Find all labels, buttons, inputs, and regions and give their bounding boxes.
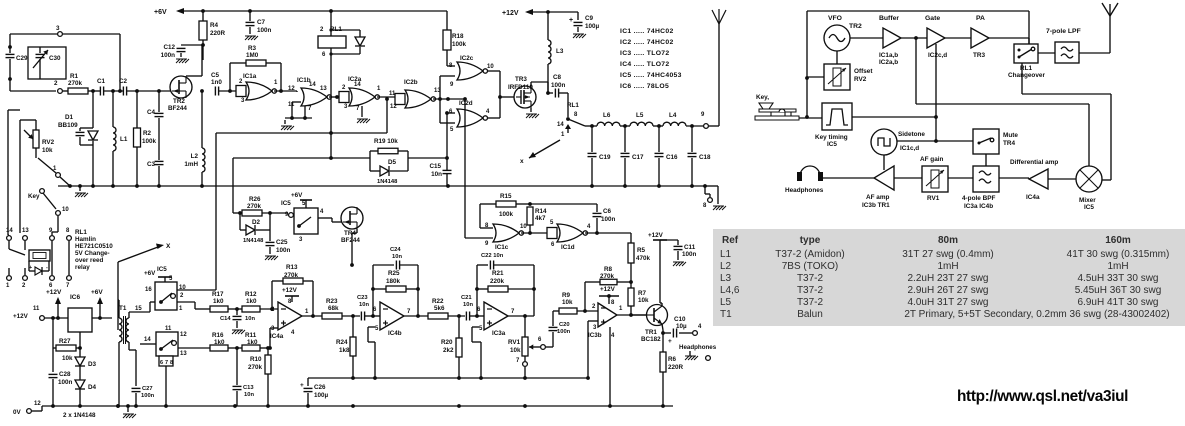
wire key to timing: [799, 117, 822, 119]
svg-text:R4: R4: [210, 22, 219, 29]
svg-text:C16: C16: [666, 154, 678, 161]
svg-text:Changeover: Changeover: [1008, 72, 1045, 79]
wire: [985, 154, 987, 166]
wire IC4a out: [302, 315, 322, 317]
relay RL1 coil: [330, 11, 332, 36]
wire: [177, 289, 216, 291]
svg-text:L3: L3: [556, 48, 564, 55]
svg-text:TR3: TR3: [515, 76, 527, 83]
wire IC4b out: [404, 315, 428, 317]
svg-text:Mixer: Mixer: [1079, 197, 1096, 204]
NOR gate IC2d: [457, 109, 483, 127]
svg-text:TR4: TR4: [1003, 140, 1016, 147]
svg-text:R6: R6: [668, 356, 677, 363]
Sidetone block: [871, 129, 897, 155]
svg-text:1mH: 1mH: [1107, 261, 1128, 272]
wire IC3b pin3: [588, 320, 598, 322]
Mute TR4 block: [973, 129, 999, 154]
svg-text:14: 14: [309, 82, 316, 88]
svg-text:C27: C27: [142, 386, 153, 392]
svg-text:C29: C29: [16, 55, 28, 62]
resistor R18: [446, 11, 448, 30]
wire: [1048, 178, 1076, 180]
resistor R21 feedback: [477, 288, 488, 290]
svg-text:14: 14: [144, 337, 151, 343]
svg-text:100n: 100n: [276, 247, 291, 254]
svg-text:1n0: 1n0: [211, 79, 222, 86]
svg-text:TR2: TR2: [173, 98, 185, 105]
wire IC6 gnd: [79, 332, 81, 406]
wire: [447, 65, 455, 67]
svg-text:BF244: BF244: [341, 237, 360, 244]
svg-text:IC1 ..... 74HC02: IC1 ..... 74HC02: [620, 28, 674, 35]
wire IC3a +in: [472, 326, 479, 328]
svg-text:IC3b TR1: IC3b TR1: [862, 202, 890, 209]
wire IC1c inputs: [465, 237, 493, 239]
svg-text:R1: R1: [70, 73, 79, 80]
svg-text:IRFD110: IRFD110: [508, 84, 533, 91]
wire: [274, 90, 297, 92]
svg-text:+: +: [300, 382, 304, 389]
wire: [377, 96, 395, 98]
antenna block: [1102, 3, 1110, 16]
svg-text:IC3b: IC3b: [588, 332, 602, 339]
svg-text:R18: R18: [452, 33, 464, 40]
svg-text:C2: C2: [119, 78, 128, 85]
svg-text:1N4148: 1N4148: [243, 238, 264, 244]
capacitor C12: [181, 44, 203, 46]
svg-text:13: 13: [180, 351, 187, 357]
inductor L6: [597, 122, 620, 126]
svg-text:10k: 10k: [638, 297, 649, 304]
svg-text:C3: C3: [147, 161, 156, 168]
svg-text:100n: 100n: [141, 393, 155, 399]
svg-text:C19: C19: [599, 154, 611, 161]
op-amp IC3a: [484, 302, 508, 330]
svg-text:Sidetone: Sidetone: [898, 131, 925, 138]
svg-text:41T 30 swg (0.315mm): 41T 30 swg (0.315mm): [1067, 249, 1170, 260]
svg-text:+12V: +12V: [648, 232, 664, 239]
wire IC1d out: [585, 232, 631, 234]
capacitor C13: [233, 385, 242, 387]
svg-text:type: type: [800, 235, 821, 246]
svg-text:100k: 100k: [142, 138, 157, 145]
svg-text:3: 3: [56, 25, 60, 32]
wire: [901, 37, 927, 39]
wire node3: [10, 33, 57, 35]
capacitor C22 feedback: [476, 265, 478, 316]
capacitor C18: [691, 126, 693, 152]
svg-text:relay: relay: [75, 264, 90, 271]
NOR gate IC2a: [339, 92, 349, 103]
svg-text:Offset: Offset: [854, 68, 873, 75]
wire IC3b out: [617, 314, 646, 316]
wire rx feed: [1021, 63, 1023, 94]
svg-text:IC5: IC5: [827, 141, 837, 148]
svg-text:4.5uH 33T 30 swg: 4.5uH 33T 30 swg: [1078, 273, 1159, 284]
svg-text:14: 14: [557, 122, 564, 128]
svg-text:IC4 ..... TLO72: IC4 ..... TLO72: [620, 61, 669, 68]
svg-text:2.9uH 26T 27 swg: 2.9uH 26T 27 swg: [908, 285, 989, 296]
wire IC3b pin4: [609, 327, 611, 406]
svg-text:IC2c,d: IC2c,d: [928, 52, 947, 59]
svg-text:2: 2: [54, 80, 58, 87]
inductor L4: [663, 122, 686, 126]
svg-text:10n: 10n: [431, 171, 442, 178]
svg-text:11: 11: [389, 91, 396, 97]
resistor R2: [136, 91, 138, 128]
diode D4: [75, 380, 85, 389]
wire: [1038, 52, 1055, 54]
svg-text:IC6 ..... 78LO5: IC6 ..... 78LO5: [620, 83, 669, 90]
svg-text:1mH: 1mH: [184, 161, 198, 168]
svg-text:IC2d: IC2d: [459, 100, 473, 107]
capacitor C27: [132, 387, 141, 389]
wire IC2c out: [487, 70, 500, 72]
svg-text:+: +: [668, 338, 672, 345]
svg-text:100n: 100n: [551, 82, 566, 89]
node 4 headphones: [693, 331, 698, 336]
diode relay: [28, 261, 30, 271]
svg-text:Headphones: Headphones: [785, 187, 824, 194]
ground: [284, 120, 286, 124]
capacitor C26: [307, 378, 309, 386]
svg-text:7BS (TOKO): 7BS (TOKO): [782, 261, 839, 272]
svg-text:D3: D3: [88, 361, 97, 368]
svg-text:Headphones: Headphones: [679, 344, 717, 351]
svg-text:10n: 10n: [245, 316, 255, 322]
inductor L1: [112, 91, 114, 127]
Offset RV2 block: [824, 64, 850, 90]
capacitor C11: [660, 239, 678, 241]
wire TR2 drain: [186, 75, 202, 77]
wire mid rail: [308, 377, 588, 379]
svg-text:0V: 0V: [13, 409, 22, 416]
wire: [19, 120, 21, 233]
resistor R15: [480, 203, 496, 205]
ground: [685, 356, 689, 360]
svg-text:8: 8: [170, 360, 173, 366]
svg-text:11: 11: [165, 326, 172, 332]
svg-text:160m: 160m: [1105, 235, 1131, 246]
svg-text:1k0: 1k0: [213, 298, 224, 305]
node 8: [703, 184, 707, 188]
svg-text:Differential amp: Differential amp: [1010, 159, 1058, 166]
capacitor C9: [577, 12, 579, 20]
svg-text:Gate: Gate: [925, 15, 940, 22]
svg-text:R17: R17: [212, 291, 224, 298]
svg-text:AF gain: AF gain: [920, 156, 944, 163]
svg-text:12: 12: [390, 104, 397, 110]
svg-text:R19 10k: R19 10k: [374, 138, 398, 145]
NOR gate IC1c: [493, 224, 519, 242]
svg-text:C22 10n: C22 10n: [481, 253, 504, 259]
svg-text:13: 13: [320, 86, 327, 92]
svg-text:R21: R21: [492, 270, 504, 277]
svg-text:IC5: IC5: [1084, 204, 1094, 211]
svg-text:100n: 100n: [601, 216, 616, 223]
svg-text:C15: C15: [429, 163, 441, 170]
svg-text:100µ: 100µ: [585, 23, 600, 30]
svg-text:C28: C28: [59, 371, 71, 378]
wire: [823, 177, 874, 179]
svg-text:IC5 ..... 74HC4053: IC5 ..... 74HC4053: [620, 72, 682, 79]
wire IC2b out: [433, 98, 465, 100]
wire ground rail: [58, 185, 705, 187]
annotation X arrow: [117, 262, 119, 330]
svg-text:IC2 ..... 74HC02: IC2 ..... 74HC02: [620, 39, 674, 46]
svg-text:Balun: Balun: [797, 309, 823, 320]
svg-text:C4: C4: [147, 109, 156, 116]
wire: [521, 232, 547, 234]
svg-text:5V Change-: 5V Change-: [75, 250, 110, 257]
svg-text:7: 7: [165, 360, 168, 366]
svg-text:180k: 180k: [386, 278, 401, 285]
resistor R13 feedback: [271, 281, 273, 309]
svg-text:R12: R12: [245, 291, 257, 298]
svg-text:10n: 10n: [392, 254, 402, 260]
ground: [673, 262, 677, 266]
resistor R7: [628, 288, 634, 306]
diode D3: [75, 357, 85, 366]
svg-text:C6: C6: [603, 208, 612, 215]
svg-text:+6V: +6V: [144, 270, 156, 277]
svg-text:220R: 220R: [668, 364, 684, 371]
svg-text:2.2uH 23T 27 swg: 2.2uH 23T 27 swg: [908, 273, 989, 284]
svg-text:100n: 100n: [58, 379, 73, 386]
wire IC2c in9: [440, 75, 455, 77]
svg-text:IC1a,b: IC1a,b: [879, 52, 898, 59]
capacitor C10: [663, 332, 671, 334]
svg-text:IC1d: IC1d: [561, 244, 575, 251]
capacitor C24 feedback: [372, 265, 374, 316]
wire collector: [661, 303, 663, 306]
resistor R4: [202, 11, 204, 21]
svg-text:PA: PA: [976, 15, 985, 22]
svg-text:C17: C17: [632, 154, 644, 161]
svg-text:+6V: +6V: [154, 9, 167, 16]
wire vfo to mixer: [915, 38, 917, 104]
switch IC5 mixer b: [156, 332, 178, 356]
svg-text:4-pole BPF: 4-pole BPF: [962, 195, 995, 202]
svg-text:IC6: IC6: [70, 294, 81, 301]
svg-text:IC2b: IC2b: [404, 79, 418, 86]
svg-text:10: 10: [487, 64, 494, 70]
svg-text:IC1c: IC1c: [495, 244, 509, 251]
svg-text:R25: R25: [388, 270, 400, 277]
resistor R1: [63, 90, 68, 92]
svg-text:R22: R22: [432, 298, 444, 305]
ground: [245, 36, 249, 40]
svg-text:+12V: +12V: [13, 313, 29, 320]
svg-text:T37-2 (Amidon): T37-2 (Amidon): [775, 249, 844, 260]
wire VFO to offset: [836, 51, 838, 64]
svg-text:RV2: RV2: [854, 76, 867, 83]
svg-text:270k: 270k: [68, 80, 83, 87]
svg-text:IC5: IC5: [157, 266, 167, 273]
ground: [176, 59, 180, 63]
wire: [850, 37, 883, 39]
svg-text:10µ: 10µ: [676, 323, 687, 330]
NOR gate IC1d: [547, 228, 557, 239]
svg-text:+6V: +6V: [291, 192, 303, 199]
svg-text:over reed: over reed: [75, 257, 104, 264]
svg-text:Key,: Key,: [756, 94, 769, 101]
svg-text:TR2: TR2: [849, 23, 862, 30]
svg-text:C9: C9: [585, 15, 594, 22]
svg-text:R13: R13: [286, 264, 298, 271]
capacitor C19: [591, 126, 593, 152]
svg-text:L5: L5: [720, 297, 732, 308]
svg-text:D1: D1: [65, 114, 74, 121]
svg-text:T1: T1: [720, 309, 732, 320]
wire keying line: [233, 157, 370, 159]
svg-text:R27: R27: [59, 338, 71, 345]
svg-text:12: 12: [180, 332, 187, 338]
svg-text:T1: T1: [119, 305, 127, 312]
svg-text:5.45uH 36T 30 swg: 5.45uH 36T 30 swg: [1075, 285, 1162, 296]
svg-text:R15: R15: [500, 193, 512, 200]
wire IC4b +in: [368, 326, 375, 328]
wire sidetone to AF amp: [883, 155, 885, 170]
op-amp IC4a: [278, 302, 302, 330]
headphones icon: [800, 166, 820, 176]
svg-text:L4: L4: [669, 112, 677, 119]
svg-text:R5: R5: [637, 247, 646, 254]
svg-text:IC5: IC5: [281, 200, 291, 207]
svg-text:C5: C5: [211, 72, 220, 79]
annotation x arrow: [529, 140, 560, 158]
inductor L2: [201, 91, 203, 148]
svg-text:C12: C12: [163, 44, 175, 51]
wire: [178, 347, 210, 349]
4-pole BPF block: [973, 166, 999, 192]
svg-text:C13: C13: [243, 385, 254, 391]
resistor R27: [52, 318, 54, 348]
svg-text:IC2a,b: IC2a,b: [879, 59, 898, 66]
diode RL1 flyback: [331, 29, 360, 31]
svg-text:R11: R11: [245, 332, 257, 339]
svg-text:1M0: 1M0: [246, 52, 259, 59]
svg-text:TR3: TR3: [973, 52, 986, 59]
svg-text:BC182: BC182: [641, 336, 661, 343]
capacitor C21: [465, 312, 467, 321]
wire sidetone-mute: [897, 140, 973, 142]
RL1 changeover block: [1014, 44, 1038, 63]
transistor TR3 IRFD110 MOSFET: [514, 86, 536, 108]
wire IC4a +in: [270, 327, 278, 329]
potentiometer RV1: [524, 316, 526, 337]
resistor R8: [585, 281, 600, 283]
svg-text:Hamlin: Hamlin: [75, 236, 96, 243]
svg-text:Ref: Ref: [722, 235, 739, 246]
wire keying bus: [852, 116, 936, 118]
svg-text:IC3a IC4b: IC3a IC4b: [964, 203, 993, 210]
svg-text:R24: R24: [336, 339, 348, 346]
svg-text:L6: L6: [603, 112, 611, 119]
svg-text:2k2: 2k2: [443, 347, 454, 354]
svg-text:7-pole LPF: 7-pole LPF: [1046, 28, 1081, 35]
svg-text:R2: R2: [143, 130, 152, 137]
wire block top rail: [807, 10, 1029, 12]
svg-text:L2: L2: [720, 261, 732, 272]
svg-text:11: 11: [33, 306, 40, 312]
svg-text:L1: L1: [120, 136, 128, 143]
resistor R14: [527, 207, 533, 225]
svg-text:C8: C8: [553, 74, 562, 81]
svg-text:C14: C14: [220, 316, 231, 322]
wire LPF: [592, 125, 597, 127]
svg-text:C1: C1: [97, 78, 106, 85]
svg-text:C24: C24: [390, 247, 401, 253]
svg-text:T37-2: T37-2: [797, 297, 824, 308]
wire keyline to R26: [233, 212, 240, 214]
wire TR3 drain: [530, 82, 532, 86]
svg-text:100k: 100k: [452, 41, 467, 48]
wire: [948, 177, 973, 179]
svg-text:270k: 270k: [600, 273, 615, 280]
capacitor C2: [122, 87, 124, 96]
ground: [717, 186, 719, 204]
svg-text:10: 10: [520, 224, 527, 230]
svg-text:R26: R26: [249, 196, 261, 203]
relay contacts: [8, 241, 10, 249]
transistor TR2 BF244 JFET: [170, 76, 192, 98]
capacitor C8: [548, 92, 553, 94]
svg-text:IC1a: IC1a: [243, 73, 257, 80]
svg-text:C7: C7: [257, 19, 266, 26]
svg-text:IC2c: IC2c: [460, 55, 474, 62]
wire TR4 to audio: [356, 229, 358, 233]
capacitor C14: [236, 309, 238, 315]
wire IC3a out: [508, 315, 534, 317]
svg-text:6: 6: [160, 360, 163, 366]
svg-text:100µ: 100µ: [314, 392, 329, 399]
transistor TR1 BC182: [647, 305, 668, 326]
svg-text:1N4148: 1N4148: [377, 179, 398, 185]
wire IC2d inputs: [447, 112, 455, 114]
wire: [9, 80, 11, 91]
resistor R3 feedback: [229, 63, 231, 91]
svg-text:14: 14: [6, 228, 13, 234]
NOR gate IC2b: [395, 94, 405, 105]
capacitor C1: [99, 87, 101, 96]
svg-text:4.0uH 31T 27 swg: 4.0uH 31T 27 swg: [908, 297, 989, 308]
wire IC1b gnd: [291, 102, 293, 118]
svg-text:270k: 270k: [247, 203, 262, 210]
potentiometer RV2: [33, 130, 39, 148]
svg-text:R3: R3: [248, 45, 257, 52]
ground: [265, 256, 269, 260]
svg-text:12: 12: [34, 401, 41, 407]
resistor R5: [630, 233, 632, 243]
svg-text:2 x 1N4148: 2 x 1N4148: [63, 412, 96, 419]
svg-text:x: x: [520, 158, 524, 165]
wire: [989, 37, 1029, 39]
svg-text:10k: 10k: [62, 355, 73, 362]
op-amp IC3b: [598, 303, 617, 327]
svg-text:L3: L3: [720, 273, 732, 284]
svg-text:RL1: RL1: [75, 229, 87, 236]
wire C13: [236, 348, 238, 385]
svg-text:C20: C20: [559, 322, 570, 328]
svg-text:100k: 100k: [499, 211, 514, 218]
svg-text:+6V: +6V: [91, 289, 103, 296]
svg-text:C11: C11: [684, 244, 696, 251]
svg-text:IC4b: IC4b: [388, 330, 402, 337]
svg-text:68k: 68k: [328, 305, 339, 312]
svg-text:C18: C18: [699, 154, 711, 161]
